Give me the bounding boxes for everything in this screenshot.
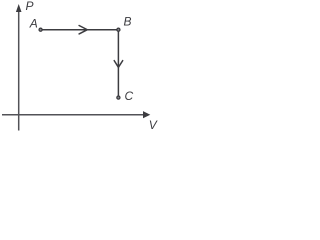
svg-text:A: A [29,17,38,31]
svg-text:P: P [26,0,34,13]
svg-text:C: C [125,89,134,103]
svg-text:B: B [124,15,132,29]
svg-text:V: V [149,118,158,132]
